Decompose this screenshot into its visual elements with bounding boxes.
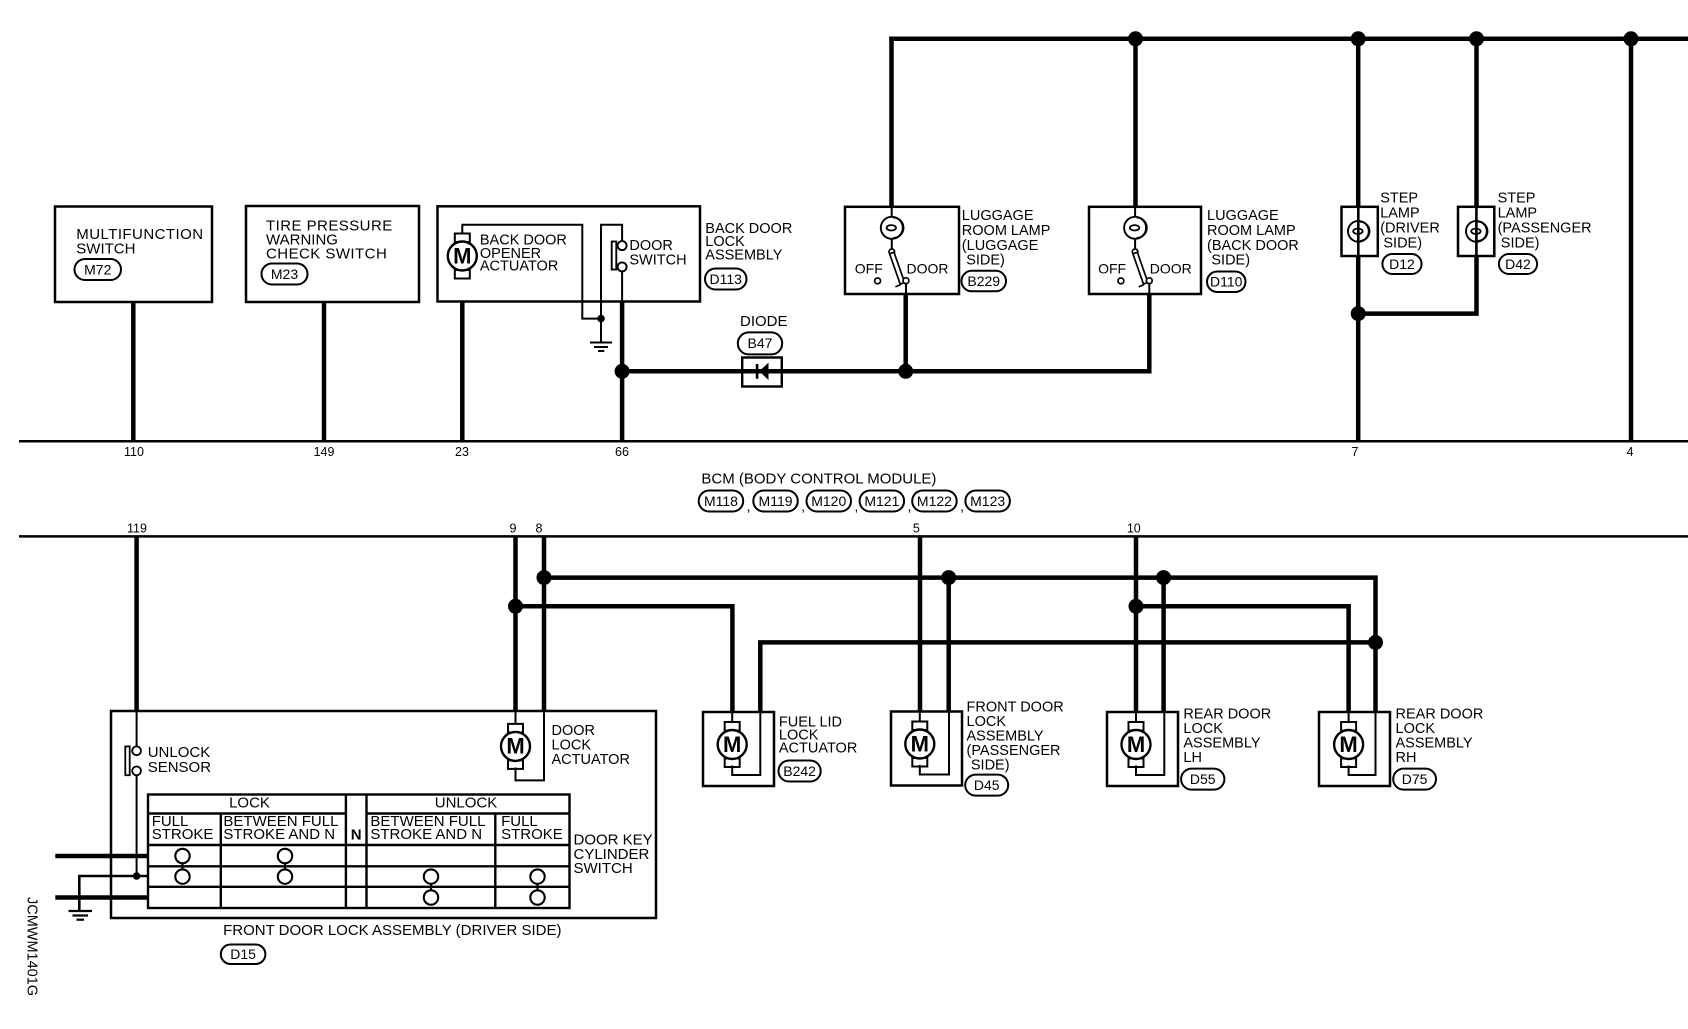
- svg-text:,: ,: [908, 498, 912, 514]
- front door lock assembly (passenger side) D45 box: [891, 712, 962, 786]
- wire: M23 to BCM pin 149: [322, 302, 327, 441]
- wire: door lock actuator return: [516, 711, 545, 780]
- svg-text:DIODE: DIODE: [740, 313, 788, 330]
- ground (key cylinder): [69, 910, 93, 912]
- connector M119: [753, 491, 798, 512]
- junction: lock rail / D45: [941, 570, 956, 585]
- svg-text:CHECK SWITCH: CHECK SWITCH: [266, 246, 387, 263]
- tire pressure warning check switch M23: [246, 206, 419, 302]
- diode D1: [742, 358, 782, 387]
- svg-text:M: M: [911, 731, 929, 756]
- junction: top bus / step lamp driver side: [1351, 31, 1366, 46]
- wire: pin 9 to fuel lid actuator: [516, 606, 733, 712]
- svg-text:UNLOCK: UNLOCK: [435, 795, 498, 812]
- svg-text:B242: B242: [783, 763, 816, 779]
- unlock sensor: [125, 746, 129, 775]
- svg-text:M: M: [1339, 732, 1357, 757]
- wire: motor return: [1136, 712, 1164, 775]
- svg-text:D12: D12: [1389, 256, 1415, 272]
- wire: through D12: [1357, 207, 1360, 256]
- svg-text:D15: D15: [230, 946, 256, 962]
- door switch (back door): [612, 242, 617, 270]
- svg-text:D42: D42: [1505, 256, 1531, 272]
- wire: pin 9 down: [513, 536, 518, 711]
- wire: to unlock sensor: [136, 711, 138, 746]
- svg-text:M: M: [453, 243, 471, 268]
- step lamp (passenger side) D42 box: [1458, 207, 1494, 256]
- ground (back door lock assembly): [600, 319, 602, 343]
- connector M118: [699, 491, 744, 512]
- wire: lamp to switch pivot: [1134, 238, 1136, 249]
- svg-text:SENSOR: SENSOR: [148, 759, 212, 776]
- connector D75: [1393, 769, 1436, 790]
- svg-text:M119: M119: [759, 493, 793, 509]
- wire: motor feed: [731, 712, 733, 723]
- switch blade: [890, 252, 905, 284]
- svg-text:ACTUATOR: ACTUATOR: [480, 258, 558, 274]
- junction: pin 9 / fuel lid branch: [508, 599, 523, 614]
- svg-text:STEP: STEP: [1498, 190, 1536, 206]
- svg-text:ACTUATOR: ACTUATOR: [552, 752, 630, 768]
- connector M120: [807, 491, 852, 512]
- svg-text:7: 7: [1352, 445, 1359, 459]
- wire: M72 to BCM pin 110: [131, 302, 136, 441]
- OFF terminal: [1118, 278, 1124, 284]
- svg-text:SIDE): SIDE): [1211, 253, 1250, 269]
- svg-text:,: ,: [747, 498, 751, 514]
- svg-text:LOCK: LOCK: [967, 714, 1007, 730]
- connector D45: [965, 775, 1008, 796]
- wire: door switch lower terminal to box edge: [621, 271, 623, 301]
- svg-text:SWITCH: SWITCH: [629, 252, 686, 268]
- step lamp (driver side) D12 box: [1342, 207, 1378, 256]
- junction: B229 / diode wire: [898, 364, 913, 379]
- junction: pin 8 / lock rail: [537, 570, 552, 585]
- svg-text:M121: M121: [864, 493, 899, 509]
- svg-text:D75: D75: [1402, 771, 1428, 787]
- svg-text:M23: M23: [271, 266, 298, 282]
- wire: key cylinder row 1 stub: [55, 854, 148, 859]
- wire: door switch to ground: [601, 225, 622, 319]
- wire: top bus to BCM pin 4: [1629, 39, 1634, 442]
- motor front door lock assembly (passenger side) D45: [905, 722, 934, 767]
- front door lock assembly (driver side) D15 box: [111, 711, 656, 918]
- svg-text:FRONT DOOR: FRONT DOOR: [967, 699, 1064, 715]
- wire: drop to step lamp driver side: [1356, 39, 1361, 207]
- svg-text:ACTUATOR: ACTUATOR: [779, 741, 857, 757]
- svg-text:SIDE): SIDE): [966, 253, 1005, 269]
- wire: pin 8 down: [542, 536, 547, 711]
- door key cylinder switch table: [148, 795, 570, 909]
- svg-text:OFF: OFF: [855, 260, 883, 276]
- motor rear door lock assembly LH D55: [1122, 722, 1151, 767]
- svg-text:ROOM LAMP: ROOM LAMP: [1207, 223, 1296, 239]
- junction: top bus / BCM pin 4 wire: [1624, 31, 1639, 46]
- svg-text:M: M: [723, 732, 741, 757]
- svg-text:ASSEMBLY: ASSEMBLY: [1396, 736, 1473, 752]
- contacts: unlock between full stroke and N: [424, 869, 438, 883]
- svg-text:M122: M122: [917, 493, 952, 509]
- svg-text:DOOR: DOOR: [907, 260, 949, 276]
- svg-text:LOCK: LOCK: [229, 795, 270, 812]
- svg-text:ASSEMBLY: ASSEMBLY: [705, 247, 782, 263]
- svg-text:(DRIVER: (DRIVER: [1380, 220, 1440, 236]
- multifunction switch M72: [55, 207, 212, 303]
- junction: D12/D42 wires: [1351, 306, 1366, 321]
- lamp bulb B229: [881, 217, 904, 239]
- contacts: lock between full stroke and N: [278, 849, 292, 863]
- svg-text:ASSEMBLY: ASSEMBLY: [967, 729, 1044, 745]
- wire: drop to step lamp passenger side: [1474, 39, 1479, 207]
- wire: lamp to switch pivot: [891, 238, 893, 249]
- svg-text:M123: M123: [970, 493, 1005, 509]
- svg-text:LUGGAGE: LUGGAGE: [1207, 208, 1279, 224]
- svg-text:OFF: OFF: [1098, 260, 1126, 276]
- wire: key cylinder row 2 to ground: [79, 876, 148, 911]
- luggage room lamp (luggage side) B229 box: [845, 207, 959, 294]
- switch pivot: [1132, 249, 1138, 255]
- wire: DOOR terminal to box edge: [1148, 284, 1150, 294]
- wire: D110 to diode branch corner: [905, 294, 1149, 371]
- DOOR terminal: [903, 278, 909, 284]
- lamp bulb D110: [1124, 217, 1147, 239]
- svg-text:RH: RH: [1396, 750, 1417, 766]
- connector M122: [912, 491, 957, 512]
- svg-text:DOOR: DOOR: [552, 723, 596, 739]
- svg-text:SIDE): SIDE): [971, 758, 1010, 774]
- svg-text:B229: B229: [967, 273, 1000, 289]
- svg-text:(PASSENGER: (PASSENGER: [1498, 220, 1592, 236]
- wire: pin 119 to unlock sensor: [134, 536, 139, 711]
- wire: motor return: [732, 712, 760, 775]
- connector M72: [75, 259, 122, 280]
- wire: drop to luggage room lamp (back door side): [1133, 39, 1138, 207]
- BCM (body control module) lower pin rail: [19, 535, 1688, 538]
- svg-text:SWITCH: SWITCH: [574, 860, 633, 877]
- svg-text:D45: D45: [974, 777, 1000, 793]
- wire: motor feed: [1135, 712, 1137, 723]
- svg-text:STROKE: STROKE: [152, 826, 214, 843]
- wire: door lock actuator feed (pin 9): [515, 711, 517, 725]
- wire: through D42: [1475, 207, 1478, 256]
- switch blade: [1133, 252, 1148, 284]
- svg-text:M118: M118: [704, 493, 738, 509]
- wire: pin 10 branch to D75: [1136, 606, 1349, 712]
- junction: lock rail / D55: [1156, 570, 1171, 585]
- wire: motor return: [920, 712, 949, 775]
- svg-text:STROKE AND N: STROKE AND N: [223, 826, 335, 843]
- wire: D42 joins D12 wire: [1358, 256, 1476, 314]
- connector M123: [965, 491, 1010, 512]
- svg-text:D113: D113: [710, 271, 743, 287]
- junction: sensor / row2 wire: [133, 872, 141, 880]
- svg-text:LUGGAGE: LUGGAGE: [962, 208, 1034, 224]
- connector M121: [860, 491, 905, 512]
- wire: key cylinder row 3 stub: [55, 895, 148, 900]
- wire: lamp feed internal: [1134, 207, 1136, 218]
- motor rear door lock assembly RH D75: [1334, 722, 1363, 767]
- wire: door switch to BCM pin 66: [620, 302, 625, 442]
- rear door lock assembly RH D75 box: [1319, 712, 1390, 786]
- svg-text:STROKE: STROKE: [501, 826, 563, 843]
- connector B242: [779, 761, 821, 782]
- DOOR terminal: [1146, 278, 1152, 284]
- connector D15: [221, 945, 266, 965]
- svg-text:149: 149: [314, 445, 335, 459]
- svg-text:BCM (BODY CONTROL MODULE): BCM (BODY CONTROL MODULE): [701, 471, 936, 488]
- wire: unlock sensor to key cylinder row 2: [136, 775, 138, 876]
- wire: back door opener actuator internal: [462, 225, 599, 319]
- svg-text:,: ,: [960, 498, 964, 514]
- BCM (body control module) upper pin rail: [19, 440, 1688, 443]
- svg-text:REAR DOOR: REAR DOOR: [1183, 706, 1271, 722]
- back door lock assembly D113 box: [438, 206, 701, 301]
- connector D42: [1499, 254, 1537, 274]
- back door opener actuator motor: [448, 234, 477, 279]
- wire: actuator to BCM pin 23: [460, 302, 465, 442]
- svg-text:ROOM LAMP: ROOM LAMP: [962, 223, 1051, 239]
- OFF terminal: [875, 278, 881, 284]
- svg-text:ASSEMBLY: ASSEMBLY: [1183, 736, 1260, 752]
- svg-text:STROKE AND N: STROKE AND N: [370, 826, 482, 843]
- connector D12: [1382, 254, 1421, 274]
- svg-text:SWITCH: SWITCH: [76, 241, 135, 258]
- connector D110: [1207, 272, 1246, 293]
- wire: DOOR terminal to box edge: [905, 284, 907, 294]
- svg-text:M120: M120: [811, 493, 846, 509]
- svg-text:66: 66: [615, 445, 629, 459]
- svg-text:LAMP: LAMP: [1498, 205, 1538, 221]
- svg-text:LAMP: LAMP: [1380, 205, 1420, 221]
- svg-text:110: 110: [124, 445, 144, 459]
- svg-text:STEP: STEP: [1380, 190, 1418, 206]
- svg-text:LOCK: LOCK: [1183, 721, 1223, 737]
- connector M23: [262, 264, 308, 285]
- wire: diode branch: [622, 369, 1149, 374]
- svg-text:M: M: [506, 734, 524, 759]
- door lock actuator motor: [501, 724, 530, 769]
- svg-text:B47: B47: [748, 335, 773, 351]
- svg-text:D55: D55: [1190, 771, 1216, 787]
- svg-text:M: M: [1127, 732, 1145, 757]
- svg-text:9: 9: [510, 522, 517, 536]
- switch pivot: [889, 249, 895, 255]
- wire: motor feed: [1348, 712, 1350, 723]
- junction: ground node: [597, 315, 605, 323]
- wire: fuel lid return rail: [760, 642, 1375, 712]
- svg-text:,: ,: [854, 498, 858, 514]
- svg-text:119: 119: [127, 522, 147, 536]
- connector D55: [1181, 769, 1224, 790]
- wire: motor return: [1349, 712, 1376, 775]
- wire: B229 to diode branch: [903, 294, 908, 371]
- wire: lock rail drop to D45: [946, 578, 951, 711]
- svg-text:LOCK: LOCK: [552, 738, 592, 754]
- svg-text:(PASSENGER: (PASSENGER: [967, 743, 1061, 759]
- junction: top bus / luggage lamp back door side: [1128, 31, 1143, 46]
- svg-text:10: 10: [1127, 522, 1141, 536]
- lamp bulb D42: [1466, 221, 1488, 242]
- junction: top bus / step lamp passenger side: [1469, 31, 1484, 46]
- svg-text:SIDE): SIDE): [1501, 235, 1540, 251]
- luggage room lamp (back door side) D110 box: [1089, 207, 1201, 294]
- svg-text:4: 4: [1627, 445, 1634, 459]
- wire: top power bus: [889, 37, 1688, 42]
- svg-text:REAR DOOR: REAR DOOR: [1396, 706, 1484, 722]
- connector B229: [962, 271, 1007, 292]
- junction: lock rail / fuel-lid return: [1368, 635, 1383, 650]
- rear door lock assembly LH D55 box: [1107, 712, 1178, 786]
- connector D113: [705, 269, 747, 290]
- fuel lid lock actuator B242 box: [703, 712, 774, 786]
- svg-text:23: 23: [455, 445, 469, 459]
- svg-text:LH: LH: [1183, 750, 1202, 766]
- svg-text:DOOR: DOOR: [1150, 260, 1192, 276]
- connector B47: [738, 332, 782, 354]
- contacts: unlock full stroke: [530, 869, 544, 883]
- svg-text:5: 5: [913, 522, 920, 536]
- svg-text:D110: D110: [1210, 274, 1243, 290]
- svg-text:N: N: [351, 827, 362, 844]
- wire: lamp feed internal: [891, 207, 893, 218]
- wire: pin 10 down to D55: [1134, 536, 1139, 712]
- wire: drop to luggage room lamp (luggage side): [889, 37, 894, 207]
- svg-text:SIDE): SIDE): [1383, 235, 1422, 251]
- wire: lock rail drop to D55: [1161, 578, 1166, 712]
- motor fuel lid lock actuator B242: [718, 722, 747, 767]
- svg-text:,: ,: [801, 498, 805, 514]
- junction: door switch / diode wire: [615, 364, 630, 379]
- wire: pin 5 down to D45: [918, 536, 923, 711]
- contacts: lock full stroke: [175, 849, 189, 863]
- svg-text:FRONT DOOR LOCK ASSEMBLY (DRIV: FRONT DOOR LOCK ASSEMBLY (DRIVER SIDE): [223, 922, 561, 939]
- wire: D12 to BCM pin 7: [1356, 256, 1361, 441]
- svg-text:8: 8: [536, 522, 543, 536]
- svg-text:M72: M72: [84, 261, 111, 277]
- svg-text:LOCK: LOCK: [1396, 721, 1436, 737]
- svg-text:JCMWM1401G: JCMWM1401G: [24, 897, 40, 996]
- wire: lock rail (pin 8): [544, 578, 1376, 712]
- junction: pin 10 / D75 branch: [1129, 599, 1144, 614]
- lamp bulb D12: [1348, 221, 1370, 242]
- wire: motor feed: [919, 712, 921, 723]
